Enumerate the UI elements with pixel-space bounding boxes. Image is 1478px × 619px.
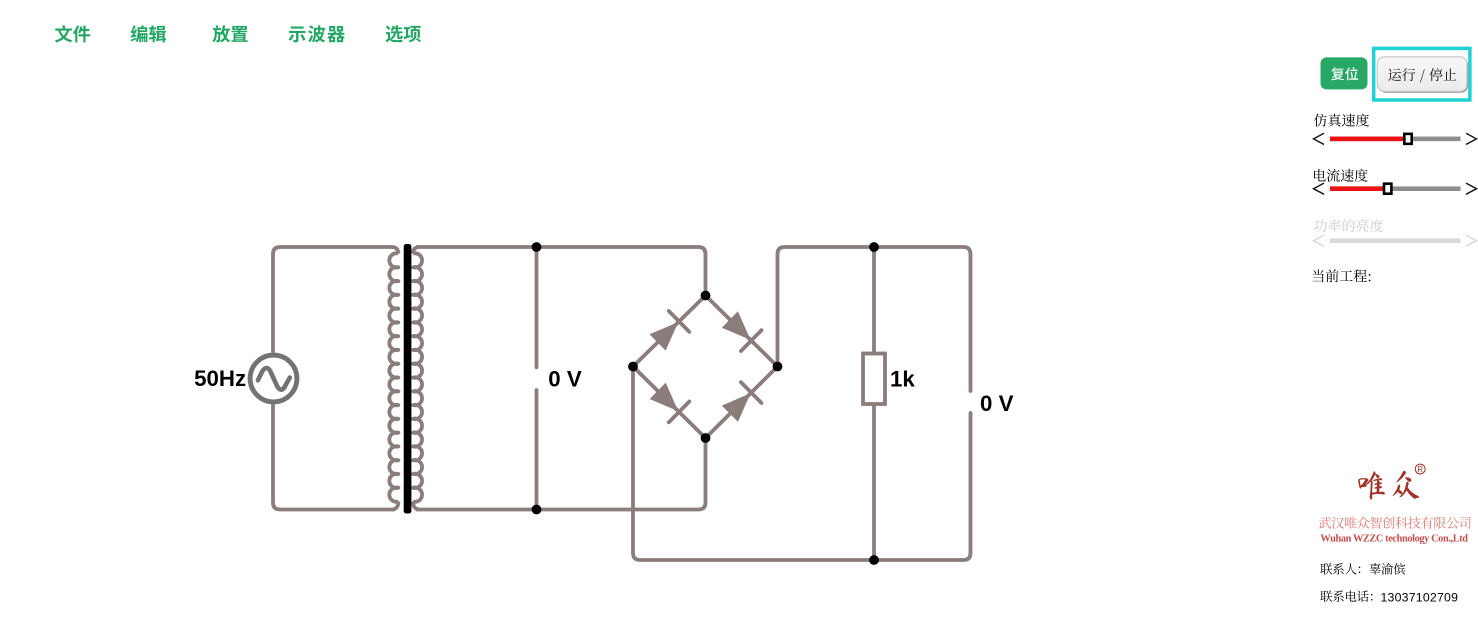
resistor R1 top lead	[872, 247, 876, 354]
menu item 示波器	[289, 25, 345, 42]
diode D1 left-to-top	[633, 296, 706, 367]
slider current speed	[1314, 169, 1477, 195]
menu item 编辑	[131, 25, 166, 42]
resistor R1 bottom lead	[872, 404, 876, 560]
menu item 选项	[386, 25, 421, 42]
node secondary top / VM1	[532, 242, 542, 252]
logo (R) mark	[1415, 464, 1425, 474]
logo 唯	[1358, 471, 1385, 499]
node bridge bottom	[701, 433, 711, 443]
node bridge left	[628, 362, 638, 372]
diode D2 top-to-right	[706, 296, 778, 367]
logo 众	[1392, 471, 1419, 499]
label 当前工程:	[1313, 269, 1371, 282]
resistor R1 body	[863, 354, 885, 405]
svg-text:0 V: 0 V	[980, 391, 1014, 416]
node secondary bottom / VM1	[532, 505, 542, 515]
menu item 文件	[55, 25, 90, 42]
slider power brightness (disabled)	[1314, 219, 1477, 246]
voltmeter VM1 top lead	[535, 247, 539, 367]
wire primary top-left	[273, 247, 392, 353]
contact person	[1320, 563, 1405, 575]
transformer core	[404, 244, 412, 514]
transformer secondary top lead	[413, 247, 420, 254]
wire bridge left down + bottom dc rail + VM2 bottom	[633, 367, 971, 561]
reset button 复位	[1321, 57, 1368, 89]
company name CN	[1319, 517, 1471, 529]
contact phone label	[1320, 590, 1372, 602]
svg-text:0 V: 0 V	[548, 367, 582, 392]
svg-text:Wuhan WZZC technology Con.,Ltd: Wuhan WZZC technology Con.,Ltd	[1320, 534, 1468, 545]
menu item 放置	[213, 25, 248, 42]
svg-text:50Hz: 50Hz	[194, 366, 246, 391]
node R1 bottom	[869, 555, 879, 565]
transformer T1 secondary winding	[413, 253, 422, 502]
AC source 50Hz	[250, 355, 297, 402]
wire secondary bottom rail	[416, 438, 706, 510]
run/stop highlight frame	[1374, 48, 1470, 100]
node bridge top	[701, 291, 711, 301]
svg-text:1k: 1k	[890, 367, 915, 392]
slider simulation speed	[1314, 114, 1477, 145]
transformer secondary bottom lead	[413, 502, 420, 510]
node R1 top	[869, 242, 879, 252]
transformer T1 primary winding	[389, 253, 398, 502]
wire secondary top rail	[416, 247, 706, 296]
transformer primary bottom lead	[392, 502, 398, 510]
diode D3 left-to-bottom	[633, 367, 706, 439]
run/stop button 运行/停止	[1377, 57, 1467, 92]
node bridge right	[773, 362, 783, 372]
svg-text:R: R	[1417, 465, 1423, 474]
svg-text:13037102709: 13037102709	[1381, 591, 1459, 605]
wire primary bottom-left	[273, 404, 394, 509]
voltmeter VM1 bottom lead	[535, 390, 539, 510]
transformer primary top lead	[392, 247, 398, 254]
wire bridge right up and top rail + VM2 top	[778, 247, 971, 391]
diode D4 bottom-to-right	[706, 367, 778, 439]
